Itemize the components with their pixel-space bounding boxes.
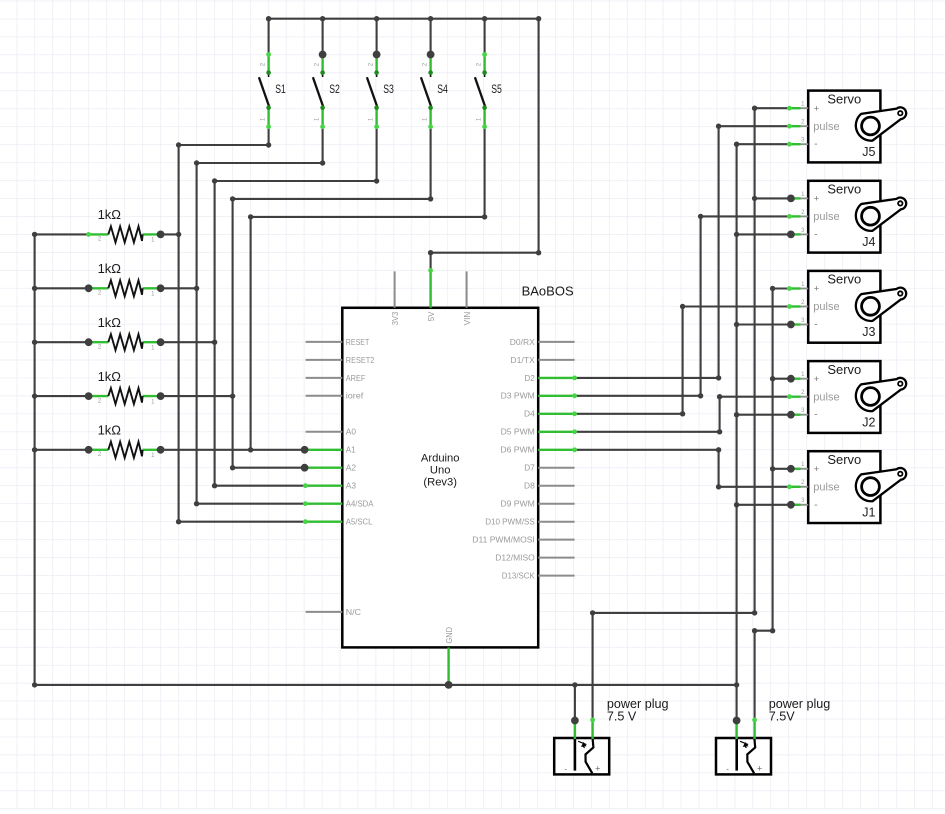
wire node to pin A3 — [215, 485, 306, 487]
node D2 corner — [716, 375, 721, 380]
servo J2 — [789, 361, 906, 433]
svg-text:1kΩ: 1kΩ — [98, 315, 122, 330]
node plug1 plus corner — [752, 610, 757, 615]
pin A5/SCL — [305, 521, 342, 523]
node S4 pin1 end — [428, 124, 433, 129]
node S3 corner2 — [212, 178, 217, 183]
wire S1 pin1 down — [268, 127, 270, 145]
servo J5 — [789, 91, 906, 163]
svg-text:+: + — [757, 764, 762, 774]
svg-text:-: - — [726, 765, 729, 774]
node A1 junction — [301, 446, 309, 454]
node J3 minus tap — [734, 322, 739, 327]
wire left GND bus — [34, 234, 36, 685]
pin A4/SDA — [305, 503, 342, 505]
node switch top junction — [373, 51, 381, 59]
svg-text:A5/SCL: A5/SCL — [346, 517, 373, 527]
node R left junction — [85, 338, 93, 346]
node D3 corner — [698, 393, 703, 398]
svg-text:Uno: Uno — [430, 464, 451, 476]
node J1 pulse end — [787, 484, 792, 489]
plug1 plus pin — [591, 720, 593, 739]
node S2 corner — [320, 160, 325, 165]
node D6 corner — [716, 447, 721, 452]
wire plug1 plus across — [593, 612, 755, 614]
svg-text:D2: D2 — [524, 373, 535, 383]
svg-text:S5: S5 — [491, 84, 502, 96]
wire GND line — [35, 684, 737, 686]
pin N/C stub — [306, 611, 343, 613]
switch S3 — [367, 55, 394, 127]
node A pin end — [303, 483, 308, 488]
node switch top — [266, 52, 271, 57]
svg-text:7.5 V: 7.5 V — [607, 709, 637, 723]
wire D5 vert — [719, 397, 721, 432]
node D5 corner — [717, 429, 722, 434]
node R4 tap — [230, 393, 235, 398]
node bus junction — [266, 16, 271, 21]
svg-text:S1: S1 — [275, 84, 286, 96]
svg-text:Arduino: Arduino — [421, 453, 460, 465]
svg-text:Servo: Servo — [827, 91, 861, 106]
node J4 pulse end — [787, 214, 792, 219]
svg-text:RESET2: RESET2 — [346, 355, 375, 365]
wire S2 left — [197, 162, 323, 164]
pin RESET stub — [306, 341, 343, 343]
svg-text:D0/RX: D0/RX — [510, 337, 535, 347]
wire bus to S4 — [430, 18, 432, 55]
node S2 pin1 end — [320, 124, 325, 129]
wire S5 left — [251, 216, 485, 218]
svg-text:D3 PWM: D3 PWM — [501, 391, 535, 401]
pin D0/RX stub — [538, 341, 574, 343]
wire D3 out — [575, 395, 701, 397]
svg-text:J4: J4 — [862, 235, 875, 249]
node J4 plus tap — [752, 196, 757, 201]
node GND junction — [445, 681, 453, 689]
wire R2 to node — [161, 287, 197, 289]
wire D2 to pulse — [719, 125, 790, 127]
node R3 tap — [212, 340, 217, 345]
pin D11 PWM/MOSI stub — [538, 539, 574, 541]
svg-text:D4: D4 — [524, 409, 535, 419]
svg-text:+: + — [814, 374, 820, 385]
node bus corner — [32, 232, 37, 237]
switch S4 — [421, 55, 448, 127]
wire J4 plus — [755, 197, 790, 199]
pin D7 stub — [538, 467, 574, 469]
node R left junction — [85, 446, 93, 454]
node R1 left end — [86, 232, 91, 237]
wire J4 minus — [737, 233, 790, 235]
power plug X1 — [554, 697, 668, 774]
node bus junction — [536, 16, 541, 21]
wire 5V across — [431, 252, 539, 254]
node J4 minus junction — [787, 231, 795, 239]
node A2 corner — [230, 465, 235, 470]
wire S4 pin1 down — [430, 127, 432, 199]
wire D6 out — [575, 449, 719, 451]
node A pin end — [303, 519, 308, 524]
wire S3 pin1 down — [376, 127, 378, 181]
svg-text:pulse: pulse — [813, 481, 839, 493]
node J1 minus tap — [734, 502, 739, 507]
svg-text:A4/SDA: A4/SDA — [346, 499, 374, 509]
svg-text:1kΩ: 1kΩ — [98, 207, 122, 222]
wire bus to R3 — [35, 341, 89, 343]
svg-text:S3: S3 — [383, 84, 394, 96]
pin D12/MISO stub — [538, 557, 574, 559]
wire bus to S1 — [268, 18, 270, 55]
wire J2 plus — [773, 378, 790, 380]
wire S5 pin1 down — [484, 127, 486, 217]
node D3 pin end — [572, 393, 577, 398]
svg-text:-: - — [814, 500, 817, 511]
svg-text:A0: A0 — [346, 427, 356, 437]
svg-text:GND: GND — [444, 627, 454, 644]
node J4 plus junction — [787, 195, 795, 203]
svg-text:A2: A2 — [346, 463, 356, 473]
node J1 minus junction — [787, 501, 795, 509]
svg-text:-: - — [814, 229, 817, 240]
wire S4 vert to A2 — [232, 199, 234, 468]
node plug1 plus corner2 — [590, 610, 595, 615]
svg-text:RESET: RESET — [346, 337, 370, 347]
wire plug2 plus bus — [772, 289, 774, 631]
node S5-A1 tee — [248, 447, 253, 452]
wire J3 plus — [773, 287, 790, 289]
node A3 corner — [212, 483, 217, 488]
wire J5 minus — [737, 143, 790, 145]
wire top 5V bus — [268, 18, 540, 20]
svg-text:Servo: Servo — [827, 362, 861, 377]
pin AREF stub — [306, 377, 343, 379]
pin RESET2 stub — [306, 359, 343, 361]
wire plug1 plus drop — [592, 613, 594, 720]
node J1 plus tap — [770, 466, 775, 471]
node plug1 minus pin — [571, 717, 579, 725]
svg-text:-: - — [814, 410, 817, 421]
svg-text:3V3: 3V3 — [390, 312, 400, 326]
resistor R3 1kohm — [89, 315, 161, 352]
node J4 minus tap — [734, 232, 739, 237]
pin VIN stub — [466, 271, 468, 307]
pin A1 — [305, 449, 342, 451]
node J2 minus tap — [734, 412, 739, 417]
pin D1/TX stub — [538, 359, 574, 361]
svg-text:pulse: pulse — [813, 211, 839, 223]
Arduino Uno U1 body — [342, 284, 574, 648]
node D2 corner2 — [716, 124, 721, 129]
node bus junction — [374, 16, 379, 21]
switch S5 — [475, 55, 502, 127]
resistor R2 1kohm — [89, 261, 161, 298]
svg-text:D1/TX: D1/TX — [510, 355, 535, 365]
node bus tap — [32, 393, 37, 398]
node J3 pulse end — [787, 304, 792, 309]
wire plug2 plus drop — [754, 631, 756, 720]
node J1 plus junction — [787, 465, 795, 473]
wire plug2 bus jog — [755, 630, 773, 632]
pin A3 — [305, 485, 342, 487]
svg-text:pulse: pulse — [813, 391, 839, 403]
node S5 corner2 — [248, 214, 253, 219]
svg-text:1kΩ: 1kΩ — [98, 423, 122, 438]
node J5 plus end — [787, 106, 792, 111]
svg-text:J5: J5 — [862, 145, 875, 159]
node bus tap — [32, 340, 37, 345]
pin D8 stub — [538, 485, 574, 487]
wire bus to R1 — [35, 233, 89, 235]
svg-text:D9 PWM: D9 PWM — [500, 499, 534, 509]
node J5 minus end — [787, 142, 792, 147]
pin D10 PWM/SS stub — [538, 521, 574, 523]
svg-text:1kΩ: 1kΩ — [98, 369, 122, 384]
servo J4 — [789, 181, 906, 253]
node J5 minus corner — [734, 142, 739, 147]
wire J1 plus — [773, 468, 790, 470]
node J3 plus end — [787, 286, 792, 291]
node R left junction — [85, 392, 93, 400]
svg-text:D13/SCK: D13/SCK — [502, 571, 535, 581]
wire J5 plus — [755, 107, 790, 109]
node plug1 minus tap — [572, 682, 577, 687]
wire bus to R2 — [35, 287, 89, 289]
node bus bottom corner — [32, 682, 37, 687]
plug2 plus pin — [753, 720, 755, 739]
node bus junction — [428, 16, 433, 21]
node 5V corner2 — [536, 250, 541, 255]
node GND-neg tee — [734, 682, 739, 687]
node S5 corner — [482, 214, 487, 219]
svg-text:-: - — [814, 139, 817, 150]
svg-text:7.5V: 7.5V — [769, 709, 796, 723]
wire R5 to pin A1 — [161, 449, 305, 451]
svg-text:A3: A3 — [346, 481, 356, 491]
wire D5 to pulse — [720, 396, 790, 398]
svg-text:D10 PWM/SS: D10 PWM/SS — [485, 517, 535, 527]
svg-text:D7: D7 — [524, 463, 535, 473]
node S1 pin1 end — [266, 124, 271, 129]
wire D4 vert — [682, 307, 684, 414]
pin D13/SCK stub — [538, 575, 574, 577]
svg-text:D11 PWM/MOSI: D11 PWM/MOSI — [472, 535, 535, 545]
node S4 corner — [428, 196, 433, 201]
node D2 pin end — [572, 376, 577, 381]
node S5 pin1 end — [482, 124, 487, 129]
node R right junction — [157, 446, 165, 454]
node 5V pin end — [428, 268, 433, 273]
wire D6 to pulse — [719, 486, 790, 488]
node switch top junction — [319, 51, 327, 59]
node bus junction — [482, 16, 487, 21]
svg-text:pulse: pulse — [813, 121, 839, 133]
pin GND — [447, 647, 449, 685]
svg-text:-: - — [814, 320, 817, 331]
node S1 corner2 — [176, 142, 181, 147]
svg-text:5V: 5V — [426, 311, 436, 321]
node plug1 plus pin — [590, 718, 595, 723]
wire S3 left — [215, 180, 377, 182]
wire J1 minus — [737, 504, 790, 506]
wire D5 out — [575, 431, 720, 433]
pin A0 stub — [306, 431, 343, 433]
node J2 plus tap — [770, 376, 775, 381]
wire bus to R5 — [35, 449, 89, 451]
wire R4 to node — [161, 395, 233, 397]
wire D4 to pulse — [683, 305, 790, 307]
svg-text:A1: A1 — [346, 445, 356, 455]
node D5 pin end — [572, 429, 577, 434]
svg-text:BAoBOS: BAoBOS — [522, 284, 574, 299]
node J3 minus junction — [787, 321, 795, 329]
node R right junction — [157, 284, 165, 292]
svg-text:AREF: AREF — [346, 373, 366, 383]
wire S5 vert to A1 — [250, 217, 252, 450]
plug2 minus pin — [735, 721, 737, 740]
wire bus to R4 — [35, 395, 89, 397]
svg-text:D12/MISO: D12/MISO — [495, 553, 535, 563]
servo J1 — [789, 451, 906, 523]
svg-text:J2: J2 — [862, 415, 875, 429]
wire D3 vert — [700, 216, 702, 395]
node bus junction — [320, 16, 325, 21]
node R right junction — [157, 392, 165, 400]
svg-text:S2: S2 — [329, 84, 340, 96]
servo J3 — [789, 271, 906, 343]
switch S1 — [259, 55, 286, 127]
node R left junction — [85, 284, 93, 292]
resistor R5 1kohm — [89, 423, 161, 460]
node S1 corner — [266, 142, 271, 147]
node D4 corner2 — [680, 304, 685, 309]
pin D6 PWM — [538, 449, 574, 451]
svg-text:pulse: pulse — [813, 301, 839, 313]
node R2 tap — [194, 286, 199, 291]
pin D3 PWM — [538, 395, 574, 397]
wire R3 to node — [161, 341, 215, 343]
wire D4 out — [575, 413, 683, 415]
node J5 pulse end — [787, 124, 792, 129]
wire bus to S3 — [376, 18, 378, 55]
wire bus to S5 — [484, 18, 486, 55]
node plug2 plus pin — [752, 718, 757, 723]
svg-text:Servo: Servo — [827, 452, 861, 467]
pin ioref stub — [306, 395, 343, 397]
node 5V corner — [428, 250, 433, 255]
node switch top junction — [427, 51, 435, 59]
node A pin end — [303, 501, 308, 506]
svg-text:+: + — [595, 764, 600, 774]
node D3 corner2 — [698, 214, 703, 219]
plug1 minus pin — [574, 721, 576, 740]
wire D6 vert — [718, 450, 720, 487]
svg-text:D5 PWM: D5 PWM — [501, 427, 535, 437]
wire S2 vert to A4 — [196, 163, 198, 504]
pin 5V — [429, 270, 431, 307]
wire 5V riser to bus — [538, 19, 540, 253]
svg-text:1kΩ: 1kΩ — [98, 261, 122, 276]
svg-text:D6 PWM: D6 PWM — [500, 445, 534, 455]
wire bus to S2 — [322, 18, 324, 55]
svg-text:+: + — [814, 284, 820, 295]
wire node to pin A2 — [233, 467, 305, 469]
svg-text:+: + — [814, 194, 820, 205]
node R1 tap — [176, 232, 181, 237]
node bus tap — [32, 447, 37, 452]
wire D2 out — [575, 377, 719, 379]
svg-text:VIN: VIN — [462, 312, 472, 326]
switch S2 — [313, 55, 340, 127]
pin D5 PWM — [538, 431, 574, 433]
svg-text:S4: S4 — [437, 84, 448, 96]
node S2 corner2 — [194, 160, 199, 165]
node J2 minus junction — [787, 411, 795, 419]
power plug X2 — [716, 697, 830, 774]
node S4 corner2 — [230, 196, 235, 201]
node D4 corner — [680, 411, 685, 416]
svg-text:ioref: ioref — [346, 391, 364, 401]
resistor R1 1kohm — [89, 207, 161, 244]
node S3 pin1 end — [374, 124, 379, 129]
node J5 plus corner — [752, 106, 757, 111]
svg-text:Servo: Servo — [827, 272, 861, 287]
wire J2 minus — [737, 414, 790, 416]
node A2 junction — [301, 464, 309, 472]
wire 5V pin up — [430, 253, 432, 271]
wire S3 vert to A3 — [214, 181, 216, 486]
node D6 corner2 — [716, 484, 721, 489]
node R right junction — [157, 231, 165, 239]
svg-text:J3: J3 — [862, 325, 875, 339]
node R right junction — [157, 338, 165, 346]
node plug2 jog corner — [770, 628, 775, 633]
wire plug1 plus bus — [754, 108, 756, 613]
svg-text:(Rev3): (Rev3) — [423, 476, 457, 488]
node bus tap — [32, 286, 37, 291]
pin 3V3 stub — [394, 271, 396, 307]
wire S4 left — [233, 198, 431, 200]
svg-text:Servo: Servo — [827, 182, 861, 197]
svg-text:+: + — [814, 464, 820, 475]
node J2 pulse end — [787, 394, 792, 399]
pin D9 PWM stub — [538, 503, 574, 505]
node J3 plus corner — [770, 286, 775, 291]
node A5 corner — [176, 519, 181, 524]
pin D2 — [538, 377, 574, 379]
node J2 plus junction — [787, 375, 795, 383]
svg-text:-: - — [564, 765, 567, 774]
wire R1 to node — [161, 233, 179, 235]
wire node to pin A5/SCL — [179, 521, 306, 523]
svg-text:+: + — [814, 103, 820, 114]
wire J3 minus — [737, 323, 790, 325]
resistor R4 1kohm — [89, 369, 161, 406]
svg-text:N/C: N/C — [346, 607, 361, 617]
node D5 corner2 — [717, 394, 722, 399]
pin A2 — [305, 467, 342, 469]
wire negative bus — [736, 144, 738, 720]
node plug2 minus pin — [733, 717, 741, 725]
pin D4 — [538, 413, 574, 415]
node A4 corner — [194, 501, 199, 506]
node D4 pin end — [572, 411, 577, 416]
wire S1 vert to A5 — [178, 145, 180, 522]
wire node to pin A4/SDA — [197, 503, 306, 505]
node switch top — [482, 52, 487, 57]
svg-text:J1: J1 — [862, 506, 875, 520]
wire S2 pin1 down — [322, 127, 324, 163]
